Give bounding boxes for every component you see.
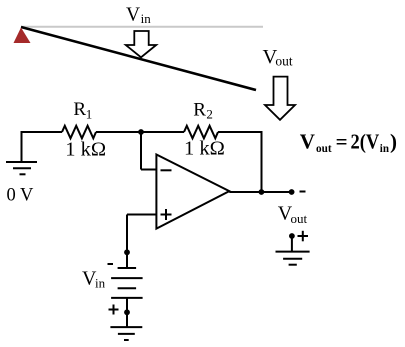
svg-text:in: in: [141, 11, 152, 26]
svg-text:in: in: [95, 276, 106, 291]
svg-text:out: out: [316, 141, 332, 155]
svg-text:1 kΩ: 1 kΩ: [65, 138, 106, 160]
svg-text:0 V: 0 V: [7, 186, 35, 206]
svg-text:out: out: [291, 211, 308, 226]
svg-text:1 kΩ: 1 kΩ: [184, 138, 225, 160]
svg-text:): ): [390, 130, 397, 154]
svg-text:out: out: [275, 54, 293, 69]
svg-text:2(V: 2(V: [351, 130, 380, 154]
svg-text:in: in: [380, 141, 389, 155]
svg-text:R: R: [193, 99, 206, 120]
svg-text:R: R: [73, 99, 86, 120]
svg-text:=: =: [336, 130, 348, 154]
svg-text:V: V: [300, 130, 315, 154]
svg-text:V: V: [126, 5, 140, 26]
svg-text:1: 1: [86, 106, 93, 121]
svg-text:2: 2: [206, 107, 213, 122]
